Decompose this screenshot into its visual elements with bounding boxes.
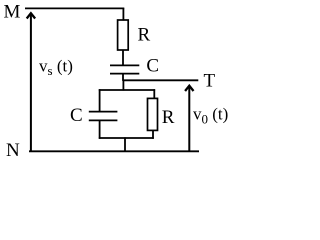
svg-text:R: R [162, 107, 175, 128]
svg-text:M: M [4, 1, 21, 22]
resistor R (series) [118, 20, 129, 50]
wire left branch lower [99, 120, 101, 138]
svg-text:v0 (t): v0 (t) [193, 105, 228, 127]
wire parallel block top rail [99, 89, 155, 91]
wire resistor to capacitor [122, 50, 124, 66]
svg-text:C: C [146, 55, 159, 76]
svg-text:T: T [204, 70, 216, 91]
voltage arrow v0(t) head [186, 86, 193, 90]
capacitor C (series) top plate [110, 64, 139, 66]
wire right branch upper [153, 89, 155, 99]
capacitor C (parallel) bottom plate [89, 119, 118, 121]
wire right branch lower [152, 130, 154, 138]
wire parallel block bottom rail [99, 137, 154, 139]
wire left branch upper [99, 89, 101, 112]
resistor R (parallel) [148, 98, 158, 130]
voltage arrow vs(t) head [27, 13, 34, 17]
wire center connector block to bottom rail [124, 137, 126, 152]
wire bottom rail from N [29, 150, 199, 152]
svg-text:vs (t): vs (t) [39, 57, 73, 79]
svg-text:N: N [6, 140, 20, 161]
svg-text:C: C [70, 105, 83, 126]
voltage arrow v0(t) shaft [188, 86, 190, 152]
svg-text:R: R [138, 24, 151, 45]
voltage arrow vs(t) shaft [30, 13, 32, 151]
wire down from T rail to parallel block [122, 80, 124, 91]
wire corner down to series resistor [122, 8, 124, 20]
capacitor C (parallel) top plate [89, 111, 118, 113]
wire top rail from M [25, 7, 124, 9]
wire capacitor to node T rail [122, 74, 124, 81]
wire T rail [123, 79, 199, 81]
capacitor C (series) bottom plate [110, 73, 139, 75]
